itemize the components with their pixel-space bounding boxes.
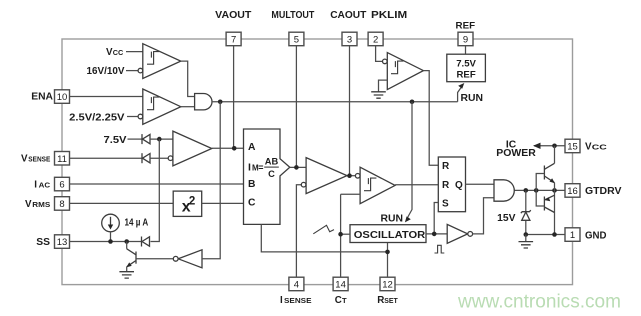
- pin 1 GND: [565, 228, 607, 242]
- wire D2 to U3 inverting bubble: [150, 157, 169, 159]
- wire zener D4 vertical: [525, 190, 527, 234]
- svg-text:5: 5: [294, 35, 299, 46]
- PWM comparator U8: [360, 167, 395, 204]
- wire clamp junction down to SS diode D3: [151, 139, 160, 241]
- bubble U9 inverting input: [383, 59, 388, 64]
- bubble U3 inverting input: [168, 156, 173, 161]
- svg-text:8: 8: [59, 199, 64, 210]
- wire RUN vertical to oscillator with arrow: [407, 102, 412, 219]
- svg-text:POWER: POWER: [496, 148, 536, 159]
- svg-text:AC: AC: [39, 181, 51, 190]
- arrowhead IC POWER: [533, 143, 541, 149]
- wire Q3 base from inverter U12: [136, 258, 173, 260]
- svg-text:R: R: [442, 180, 450, 191]
- pin 10 ENA: [31, 90, 69, 104]
- svg-text:S: S: [442, 199, 449, 210]
- svg-text:REF: REF: [456, 21, 476, 32]
- AND gate U6 gate drive: [494, 180, 514, 201]
- block 7.5V REF: [447, 54, 486, 81]
- pin 15 VCC: [565, 139, 608, 153]
- node oscillator output junction: [432, 232, 437, 237]
- wire U12 input from RUN net: [202, 102, 220, 259]
- svg-text:A: A: [248, 142, 256, 153]
- pin 12 RSET: [377, 277, 398, 306]
- wire pin3 CAOUT vertical: [349, 46, 351, 176]
- svg-text:RUN: RUN: [381, 213, 404, 224]
- pin 3 CAOUT: [330, 9, 367, 46]
- wire U9 ground reference input: [379, 80, 388, 91]
- pin 14 CT: [333, 277, 348, 306]
- wire GTDRV row from AND gate U6 output to pin16: [514, 189, 566, 191]
- wire GTDRV node vertical: [554, 183, 556, 213]
- svg-text:7.5V: 7.5V: [104, 135, 127, 146]
- wire pin4 ISENSE vertical to current amp inverting input: [296, 185, 301, 278]
- ground at Q3 emitter: [119, 272, 134, 278]
- bubble U7 inverting input: [301, 182, 306, 187]
- svg-text:MULTOUT: MULTOUT: [271, 9, 314, 21]
- wire pin2 PKLIM to comparator bubble: [376, 46, 383, 62]
- bubble U1 inverting input: [138, 68, 143, 73]
- node GTDRV output junction: [552, 188, 557, 193]
- arrowhead RUN to oscillator: [405, 216, 411, 222]
- node RUN branch to flip-flop: [410, 100, 415, 105]
- node GND zener junction: [524, 232, 529, 237]
- svg-text:PKLIM: PKLIM: [371, 9, 407, 21]
- svg-text:=: =: [258, 162, 263, 172]
- svg-text:C: C: [335, 295, 342, 306]
- svg-text:14: 14: [335, 280, 346, 291]
- svg-text:R: R: [442, 161, 450, 172]
- wire pin6 IAC to multiplier B input: [70, 183, 244, 185]
- svg-text:15V: 15V: [497, 213, 515, 224]
- node SS current source junction: [108, 239, 113, 244]
- wire 2.5V/2.25V threshold to U2 bubble: [127, 116, 138, 118]
- svg-text:9: 9: [463, 35, 468, 46]
- node SS transistor junction: [124, 239, 129, 244]
- wire U3 output VAOUT to multiplier A input: [212, 147, 244, 149]
- wire 7.5V to diode D1: [128, 138, 143, 140]
- node CT oscillator junction: [338, 232, 343, 237]
- node RSET junction: [385, 250, 390, 255]
- diode D3 soft start clamp: [142, 237, 150, 247]
- wire CT to oscillator: [341, 233, 350, 235]
- wire S input riser from oscillator output: [434, 203, 438, 234]
- svg-text:11: 11: [57, 154, 67, 165]
- bubble U8 input: [355, 174, 360, 179]
- svg-text:3: 3: [347, 35, 352, 46]
- node VCC collector junction: [552, 144, 557, 149]
- wire pin14 CT vertical: [340, 194, 342, 277]
- svg-text:CC: CC: [592, 142, 608, 151]
- svg-text:10: 10: [57, 92, 68, 103]
- ground at U9: [371, 92, 386, 98]
- node RUN at U5 output: [218, 100, 223, 105]
- block OSCILLATOR: [350, 225, 426, 243]
- wire pin9 REF to 7.5V REF block: [465, 46, 467, 54]
- transistor Q2 lower PNP emitter to GTDRV: [544, 195, 554, 234]
- wire RUN net from U5 output to REF block riser: [212, 101, 458, 103]
- diode D2 VSENSE: [142, 153, 150, 163]
- wire pin10 ENA to comparator U2 input: [70, 96, 143, 98]
- comparator U2 ENA: [143, 89, 181, 124]
- AND gate U5 enable: [195, 94, 212, 110]
- svg-text:ENA: ENA: [31, 92, 53, 103]
- svg-text:12: 12: [382, 280, 393, 291]
- wire RUN riser to 7.5V REF with arrow: [458, 86, 463, 102]
- zener diode D4: [521, 210, 531, 220]
- bubble U12 output: [173, 256, 178, 261]
- svg-text:REF: REF: [457, 69, 476, 80]
- wire D1 to voltage amp U3 noninverting input: [150, 138, 173, 140]
- wire VCC to comparator U1: [126, 51, 143, 53]
- svg-text:16V/10V: 16V/10V: [87, 66, 125, 77]
- pin 13 SS: [36, 235, 69, 249]
- svg-text:V: V: [21, 154, 28, 165]
- svg-text:6: 6: [59, 180, 64, 191]
- svg-text:4: 4: [294, 280, 299, 291]
- wire multiplier bottom to RSET: [261, 224, 387, 252]
- svg-text:7: 7: [231, 35, 236, 46]
- pin 7 VAOUT: [215, 9, 252, 46]
- block multiplier U4: [244, 129, 290, 224]
- block squarer x2: [173, 191, 202, 216]
- svg-text:C: C: [268, 169, 275, 179]
- svg-text:SS: SS: [36, 237, 50, 248]
- svg-text:www.cntronics.com: www.cntronics.com: [457, 291, 621, 313]
- pin 11 VSENSE: [21, 152, 70, 166]
- wire U11 output to AND gate U6 lower input: [473, 198, 494, 234]
- inverter U12: [178, 250, 202, 268]
- svg-text:Q: Q: [455, 180, 463, 191]
- pulse waveform glyph: [435, 245, 445, 253]
- wire GND row to pin1: [526, 234, 566, 236]
- hysteresis glyph U1: [147, 52, 159, 65]
- current amp U7: [306, 158, 347, 194]
- svg-text:SENSE: SENSE: [28, 155, 50, 164]
- wire IC POWER arrow line from pin15: [534, 145, 566, 147]
- wire U8 output to flip-flop R input: [395, 184, 438, 186]
- svg-text:SENSE: SENSE: [284, 296, 312, 305]
- node MULTOUT junction: [294, 165, 299, 170]
- wire squarer output to multiplier C input: [202, 202, 244, 204]
- PKLIM comparator U9: [387, 53, 423, 90]
- inverter U11: [447, 224, 468, 243]
- hysteresis glyph U9: [391, 61, 403, 74]
- wire Q output to AND gate U6: [466, 183, 495, 185]
- wire 16V/10V threshold to U1 bubble: [126, 70, 138, 72]
- node zener junction on drive row: [524, 188, 529, 193]
- svg-text:RUN: RUN: [461, 93, 484, 104]
- sawtooth waveform glyph: [313, 225, 334, 234]
- node GND emitter junction: [552, 232, 557, 237]
- svg-text:I: I: [280, 295, 283, 306]
- node VAOUT junction: [232, 146, 237, 151]
- wire oscillator output to inverter U11: [426, 233, 447, 235]
- flip-flop U10 RS latch: [438, 157, 465, 212]
- pin 9 REF: [456, 21, 476, 46]
- wire U9 output to flip-flop upper R input: [423, 71, 438, 166]
- svg-text:AB: AB: [265, 157, 279, 167]
- svg-text:I: I: [248, 162, 251, 174]
- node CAOUT junction: [347, 173, 352, 178]
- bubble U2 inverting input: [138, 114, 143, 119]
- transistor Q1 upper NPN collector to VCC: [544, 146, 555, 183]
- svg-text:B: B: [248, 179, 255, 190]
- svg-text:I: I: [34, 180, 37, 191]
- bubble U11 output: [468, 232, 473, 237]
- svg-text:C: C: [248, 198, 256, 209]
- wire multiplier output to current amp: [290, 166, 306, 168]
- svg-text:V: V: [25, 199, 32, 210]
- wire pin5 MULTOUT vertical: [295, 46, 297, 168]
- wire CT ramp to U8 lower input: [341, 193, 361, 195]
- pin 4 ISENSE: [280, 277, 312, 306]
- svg-text:1: 1: [570, 230, 575, 241]
- border frame of IC: [62, 39, 573, 285]
- svg-text:GND: GND: [585, 230, 607, 241]
- svg-text:T: T: [342, 296, 347, 305]
- pin 16 GTDRV: [565, 184, 622, 198]
- svg-text:16: 16: [567, 186, 578, 197]
- hysteresis glyph U8: [364, 178, 376, 191]
- pin 2 PKLIM: [368, 9, 407, 46]
- wire U7 output to comparator U8: [347, 175, 360, 177]
- transistor Q3 SS discharge: [126, 242, 136, 272]
- voltage amp U3: [173, 131, 212, 166]
- pin 8 VRMS: [25, 197, 70, 211]
- svg-text:RMS: RMS: [32, 200, 50, 209]
- wire pin7 VAOUT vertical: [233, 46, 235, 149]
- svg-text:2.5V/2.25V: 2.5V/2.25V: [69, 112, 124, 123]
- svg-text:GTDRV: GTDRV: [585, 186, 622, 197]
- current source I1 14uA: [102, 214, 120, 241]
- svg-text:15: 15: [567, 142, 578, 153]
- diode D1 clamp to noninverting input: [142, 134, 150, 144]
- svg-text:2: 2: [189, 195, 195, 207]
- svg-text:2: 2: [373, 35, 378, 46]
- wire pin13 SS to diode D3: [70, 241, 142, 243]
- wire base riser of Q1 Q2: [536, 174, 544, 207]
- ground below zener: [525, 235, 527, 242]
- svg-text:CAOUT: CAOUT: [330, 9, 367, 21]
- wire U1 output to AND gate U5: [181, 61, 195, 96]
- comparator U1 VCC UVLO: [143, 44, 181, 79]
- pin 5 MULTOUT: [271, 9, 314, 46]
- svg-text:VAOUT: VAOUT: [215, 9, 252, 21]
- svg-text:OSCILLATOR: OSCILLATOR: [354, 230, 426, 241]
- node 7.5V clamp junction: [157, 137, 162, 142]
- wire pin8 VRMS to squarer block: [70, 202, 174, 204]
- node base riser junction: [534, 188, 539, 193]
- svg-text:R: R: [377, 295, 384, 306]
- hysteresis glyph U2: [147, 97, 159, 110]
- wire pin11 VSENSE to diode D2: [70, 157, 143, 159]
- svg-text:14 µ A: 14 µ A: [125, 217, 149, 228]
- wire U2 output to AND gate U5: [181, 106, 195, 108]
- pin 6 IAC: [34, 177, 69, 191]
- svg-text:CC: CC: [113, 48, 124, 57]
- wire pin12 RSET vertical to oscillator: [387, 243, 389, 278]
- svg-text:7.5V: 7.5V: [456, 58, 476, 69]
- svg-text:SET: SET: [384, 296, 398, 305]
- svg-text:13: 13: [57, 237, 68, 248]
- arrowhead RUN to REF: [458, 83, 464, 89]
